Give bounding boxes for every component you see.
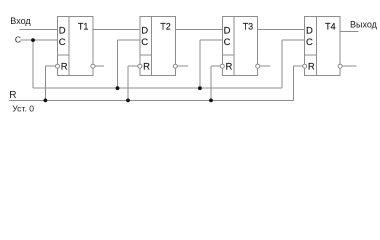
svg-text:D: D <box>306 26 313 37</box>
svg-text:T3: T3 <box>243 22 254 32</box>
svg-text:Уст. 0: Уст. 0 <box>12 103 34 113</box>
inversion bubble inverse output T2 <box>173 64 177 68</box>
inversion bubble R input T1 <box>56 64 60 68</box>
svg-text:R: R <box>308 61 315 72</box>
svg-text:R: R <box>226 61 233 72</box>
wire C to C of T1 <box>21 39 58 41</box>
svg-text:T2: T2 <box>160 22 171 32</box>
flip-flop T1 box <box>58 17 93 76</box>
svg-text:Выход: Выход <box>350 19 378 29</box>
svg-text:C: C <box>15 35 21 45</box>
svg-text:C: C <box>224 37 231 48</box>
wire Q4 to output <box>340 30 358 32</box>
svg-text:D: D <box>59 26 66 37</box>
svg-text:D: D <box>141 26 148 37</box>
svg-text:C: C <box>59 37 66 48</box>
junction dot clock bus T2 <box>116 86 120 90</box>
wire reset riser to R of T4 <box>293 66 295 100</box>
svg-text:Вход: Вход <box>10 16 31 26</box>
wire inverse output stub T2 <box>178 65 189 67</box>
inversion bubble inverse output T4 <box>338 64 342 68</box>
wire inverse output stub T3 <box>260 65 270 67</box>
wire Q1 to D of T2 <box>93 29 140 31</box>
wire inverse output stub T1 <box>95 65 104 67</box>
wire clock bus <box>33 87 282 89</box>
flip-flop T3 box <box>222 17 257 76</box>
junction dot reset bus T3 <box>209 99 213 103</box>
wire reset riser to R of T2 <box>127 66 129 100</box>
wire clock riser at C junction <box>32 40 34 88</box>
wire reset riser to R of T1 <box>44 66 46 100</box>
svg-text:R: R <box>143 61 150 72</box>
svg-text:T1: T1 <box>78 22 89 32</box>
inversion bubble inverse output T3 <box>256 64 260 68</box>
svg-text:T4: T4 <box>325 22 336 32</box>
wire input to D of T1 <box>20 29 58 31</box>
svg-text:C: C <box>141 37 148 48</box>
inversion bubble R input T2 <box>138 64 142 68</box>
flip-flop T4 box <box>305 17 340 76</box>
wire clock riser to C of T4 <box>281 40 283 88</box>
inversion bubble R input T3 <box>220 64 224 68</box>
wire Q2 to D of T3 <box>175 29 222 31</box>
inversion bubble inverse output T1 <box>91 64 95 68</box>
wire Q3 to D of T4 <box>258 29 305 31</box>
svg-text:C: C <box>306 37 313 48</box>
flip-flop T2 box <box>140 17 175 76</box>
svg-text:R: R <box>9 90 16 101</box>
junction dot reset bus T1 <box>44 99 48 103</box>
wire clock riser to C of T3 <box>199 40 201 88</box>
wire inverse output stub T4 <box>342 65 356 67</box>
junction dot on C wire <box>31 38 35 42</box>
junction dot reset bus T2 <box>126 99 130 103</box>
junction dot clock bus T3 <box>198 86 202 90</box>
wire reset riser to R of T3 <box>210 66 212 100</box>
wire clock riser to C of T2 <box>117 40 119 88</box>
inversion bubble R input T4 <box>303 64 307 68</box>
svg-text:R: R <box>61 61 68 72</box>
wire reset bus <box>9 99 294 101</box>
svg-text:D: D <box>224 26 231 37</box>
